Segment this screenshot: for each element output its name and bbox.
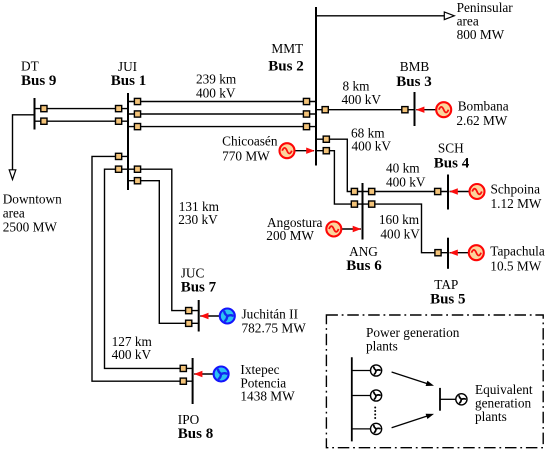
label Bombana 2.62 MW: [456, 99, 508, 129]
bus B3 (BMB): [414, 92, 416, 126]
breaker B8 side, line B1-B8 circuit 1: [180, 365, 186, 371]
svg-text:Schpoina: Schpoina: [491, 182, 541, 197]
svg-text:800 MW: 800 MW: [457, 27, 505, 42]
bus B9 (DT): [34, 98, 36, 130]
breaker B1 side, line B1-B8 circuit 2: [116, 153, 122, 159]
wire line B6-B5 (160 km 400 kV): [363, 204, 449, 253]
breaker B1 side, line B1-B7 circuit 1: [134, 166, 140, 172]
svg-text:JUC: JUC: [181, 265, 205, 280]
breaker B1 side, line B9-B1 circuit 1: [116, 106, 122, 112]
generator Angostura: [326, 222, 341, 237]
svg-text:Bus 8: Bus 8: [178, 426, 213, 442]
bus B7 (JUC): [198, 300, 200, 332]
label Juchitán II 782.75 MW: [242, 307, 307, 336]
svg-text:Downtown: Downtown: [3, 192, 62, 207]
bus B4 (SCH): [447, 175, 449, 210]
svg-text:Bus 6: Bus 6: [346, 258, 382, 274]
generator Juchitán II arrow into bus B7: [200, 313, 209, 319]
breaker B6 side, line B2-B6 circuit 2: [351, 201, 357, 207]
legend bus of generation plants: [351, 357, 353, 441]
svg-text:200 MW: 200 MW: [266, 228, 314, 243]
svg-text:Bombana: Bombana: [458, 99, 509, 114]
wire peninsular feeder from bus B2: [316, 15, 445, 17]
bus B2 (MMT): [315, 7, 317, 166]
generator Juchitán II lead wire: [200, 315, 220, 317]
breaker B6 side, line B6-B4: [369, 188, 375, 194]
wire line B1-B8 circuit 1 (127 km 400 kV): [105, 169, 193, 368]
wire legend stub gen 1: [352, 370, 371, 372]
svg-text:400 kV: 400 kV: [352, 138, 392, 153]
svg-text:area: area: [3, 205, 25, 220]
svg-text:782.75 MW: 782.75 MW: [242, 320, 307, 335]
breaker B1 side, line B1-B7 circuit 2: [134, 178, 140, 184]
wire downtown feeder from bus B9: [13, 115, 35, 171]
wire legend stub gen 2: [352, 395, 371, 397]
generator Chicoasén arrow into bus B2: [306, 148, 315, 154]
breaker B2 side, line B1-B2 circuit 3: [303, 124, 309, 130]
label Schpoina 1.12 MW: [491, 182, 542, 211]
breaker B7 side, line B1-B7 circuit 2: [186, 320, 192, 326]
generator Bombana: [436, 102, 451, 117]
breaker B3 side, line B2-B3: [402, 107, 408, 113]
legend equivalent bus: [439, 388, 441, 411]
svg-text:plants: plants: [475, 409, 507, 424]
label Chicoasén 770 MW: [222, 133, 278, 163]
svg-text:400 kV: 400 kV: [112, 347, 152, 362]
wire line B6-B4 (40 km 400 kV): [363, 191, 449, 193]
breaker B4 side, line B6-B4: [435, 188, 441, 194]
legend generator 1: [371, 365, 382, 376]
svg-text:1.12 MW: 1.12 MW: [491, 196, 542, 211]
breaker B5 side, line B6-B5: [435, 250, 441, 256]
breaker B7 side, line B1-B7 circuit 1: [186, 308, 192, 314]
generator Juchitán II (wind): [220, 309, 235, 324]
label Downtown area 2500 MW: [3, 192, 62, 235]
label Equivalent generation plants: [475, 382, 533, 424]
svg-text:400 kV: 400 kV: [380, 226, 420, 241]
svg-text:Tapachula: Tapachula: [490, 244, 545, 259]
svg-text:plants: plants: [366, 339, 398, 354]
bus B5 (TAP): [447, 238, 449, 269]
breaker B2 side, line B1-B2 circuit 2: [303, 111, 309, 117]
wire line B9-B1 circuit 1: [35, 108, 129, 110]
arrow open to Downtown area: [9, 170, 16, 180]
legend arrow gen3 to equivalent: [392, 414, 434, 428]
svg-text:Chicoasén: Chicoasén: [222, 133, 278, 148]
breaker B9 side, line B9-B1 circuit 2: [41, 118, 47, 124]
svg-text:230 kV: 230 kV: [178, 212, 218, 227]
generator Ixtepec Potencia (wind): [214, 367, 229, 382]
generator Ixtepec Potencia lead wire: [194, 373, 214, 375]
svg-text:10.5 MW: 10.5 MW: [490, 258, 541, 273]
wire legend stub gen 3: [352, 428, 371, 430]
svg-text:400 kV: 400 kV: [196, 85, 236, 100]
legend generator 3: [371, 423, 382, 434]
generator Schpoina lead wire: [450, 191, 471, 193]
wire line B9-B1 circuit 2: [35, 120, 129, 122]
legend equivalent generator: [456, 394, 467, 405]
svg-text:239 km: 239 km: [196, 72, 237, 87]
generator Tapachula: [469, 245, 484, 260]
svg-text:IPO: IPO: [178, 412, 200, 427]
svg-text:Bus 1: Bus 1: [111, 73, 146, 89]
breaker B1 side, line B9-B1 circuit 2: [116, 118, 122, 124]
generator Tapachula lead wire: [450, 252, 470, 254]
svg-text:40 km: 40 km: [386, 161, 420, 176]
generator Angostura lead wire: [340, 228, 361, 230]
svg-text:Bus 9: Bus 9: [21, 73, 56, 89]
svg-text:160 km: 160 km: [379, 212, 420, 227]
breaker B1 side, line B1-B2 circuit 1: [134, 98, 140, 104]
breaker B9 side, line B9-B1 circuit 1: [41, 106, 47, 112]
svg-text:2500 MW: 2500 MW: [3, 219, 58, 234]
bus B1 (JUI): [127, 93, 129, 190]
label Ixtepec Potencia 1438 MW: [240, 362, 295, 403]
svg-text:Juchitán II: Juchitán II: [242, 307, 299, 322]
svg-text:TAP: TAP: [434, 277, 458, 292]
svg-text:2.62 MW: 2.62 MW: [456, 113, 507, 128]
svg-text:SCH: SCH: [438, 141, 464, 156]
svg-text:MMT: MMT: [271, 41, 303, 56]
legend arrow gen1 to equivalent: [392, 372, 434, 386]
generator Chicoasén: [280, 143, 295, 158]
svg-text:Bus 7: Bus 7: [181, 279, 217, 295]
svg-text:Bus 4: Bus 4: [434, 155, 470, 171]
wire line B1-B8 circuit 2: [92, 156, 193, 381]
label Angostura 200 MW: [266, 215, 322, 243]
generator Bombana arrow into bus B3: [416, 107, 425, 113]
legend generator 2: [371, 390, 382, 401]
svg-text:DT: DT: [21, 58, 39, 73]
svg-text:Bus 2: Bus 2: [268, 58, 303, 74]
legend box: [326, 315, 543, 448]
label Peninsular area 800 MW: [457, 0, 514, 42]
bus B6 (ANG): [362, 183, 364, 240]
breaker B6 side, line B6-B5: [369, 201, 375, 207]
generator Chicoasén lead wire: [294, 150, 314, 152]
generator Ixtepec Potencia arrow into bus B8: [194, 371, 203, 377]
breaker B2 side, line B2-B6 circuit 2: [323, 148, 329, 154]
generator Schpoina: [470, 184, 485, 199]
breaker B6 side, line B2-B6 circuit 1: [351, 188, 357, 194]
generator Tapachula arrow into bus B5: [449, 250, 458, 256]
wire line B1-B2 circuit 2: [128, 113, 316, 115]
arrow open to Peninsular area: [444, 12, 454, 20]
breaker B2 side, line B1-B2 circuit 1: [303, 98, 309, 104]
wire line B1-B2 circuit 1 (239 km 400 kV): [128, 101, 316, 103]
breaker B1 side, line B1-B8 circuit 1: [116, 166, 122, 172]
breaker B1 side, line B1-B2 circuit 2: [134, 111, 140, 117]
svg-text:770 MW: 770 MW: [222, 149, 270, 164]
wire line B2-B3 (8 km 400 kV): [316, 109, 415, 111]
svg-text:JUI: JUI: [118, 59, 137, 74]
wire line B1-B7 circuit 2: [128, 181, 199, 324]
breaker B2 side, line B2-B3: [322, 107, 328, 113]
wire line B2-B6 circuit 1 (68 km 400 kV): [316, 139, 363, 191]
legend ellipsis dots: [374, 407, 376, 420]
svg-text:Bus 5: Bus 5: [430, 291, 465, 307]
svg-text:400 kV: 400 kV: [386, 175, 426, 190]
breaker B1 side, line B1-B2 circuit 3: [134, 124, 140, 130]
svg-text:BMB: BMB: [400, 59, 430, 74]
label Power generation plants: [366, 325, 460, 354]
generator Bombana lead wire: [416, 109, 437, 111]
bus B8 (IPO): [192, 358, 194, 404]
svg-text:1438 MW: 1438 MW: [240, 388, 295, 403]
generator Schpoina arrow into bus B4: [449, 188, 458, 194]
wire line B1-B2 circuit 3: [128, 126, 316, 128]
svg-text:ANG: ANG: [349, 244, 378, 259]
svg-text:Bus 3: Bus 3: [396, 74, 431, 90]
generator Angostura arrow into bus B6: [353, 226, 362, 232]
wire line B1-B7 circuit 1 (131 km 230 kV): [128, 169, 199, 310]
svg-text:400 kV: 400 kV: [342, 92, 382, 107]
label Tapachula 10.5 MW: [490, 244, 545, 274]
wire line B2-B6 circuit 2: [316, 151, 363, 204]
wire legend equivalent stub: [440, 398, 456, 400]
breaker B8 side, line B1-B8 circuit 2: [180, 378, 186, 384]
breaker B2 side, line B2-B6 circuit 1: [323, 136, 329, 142]
